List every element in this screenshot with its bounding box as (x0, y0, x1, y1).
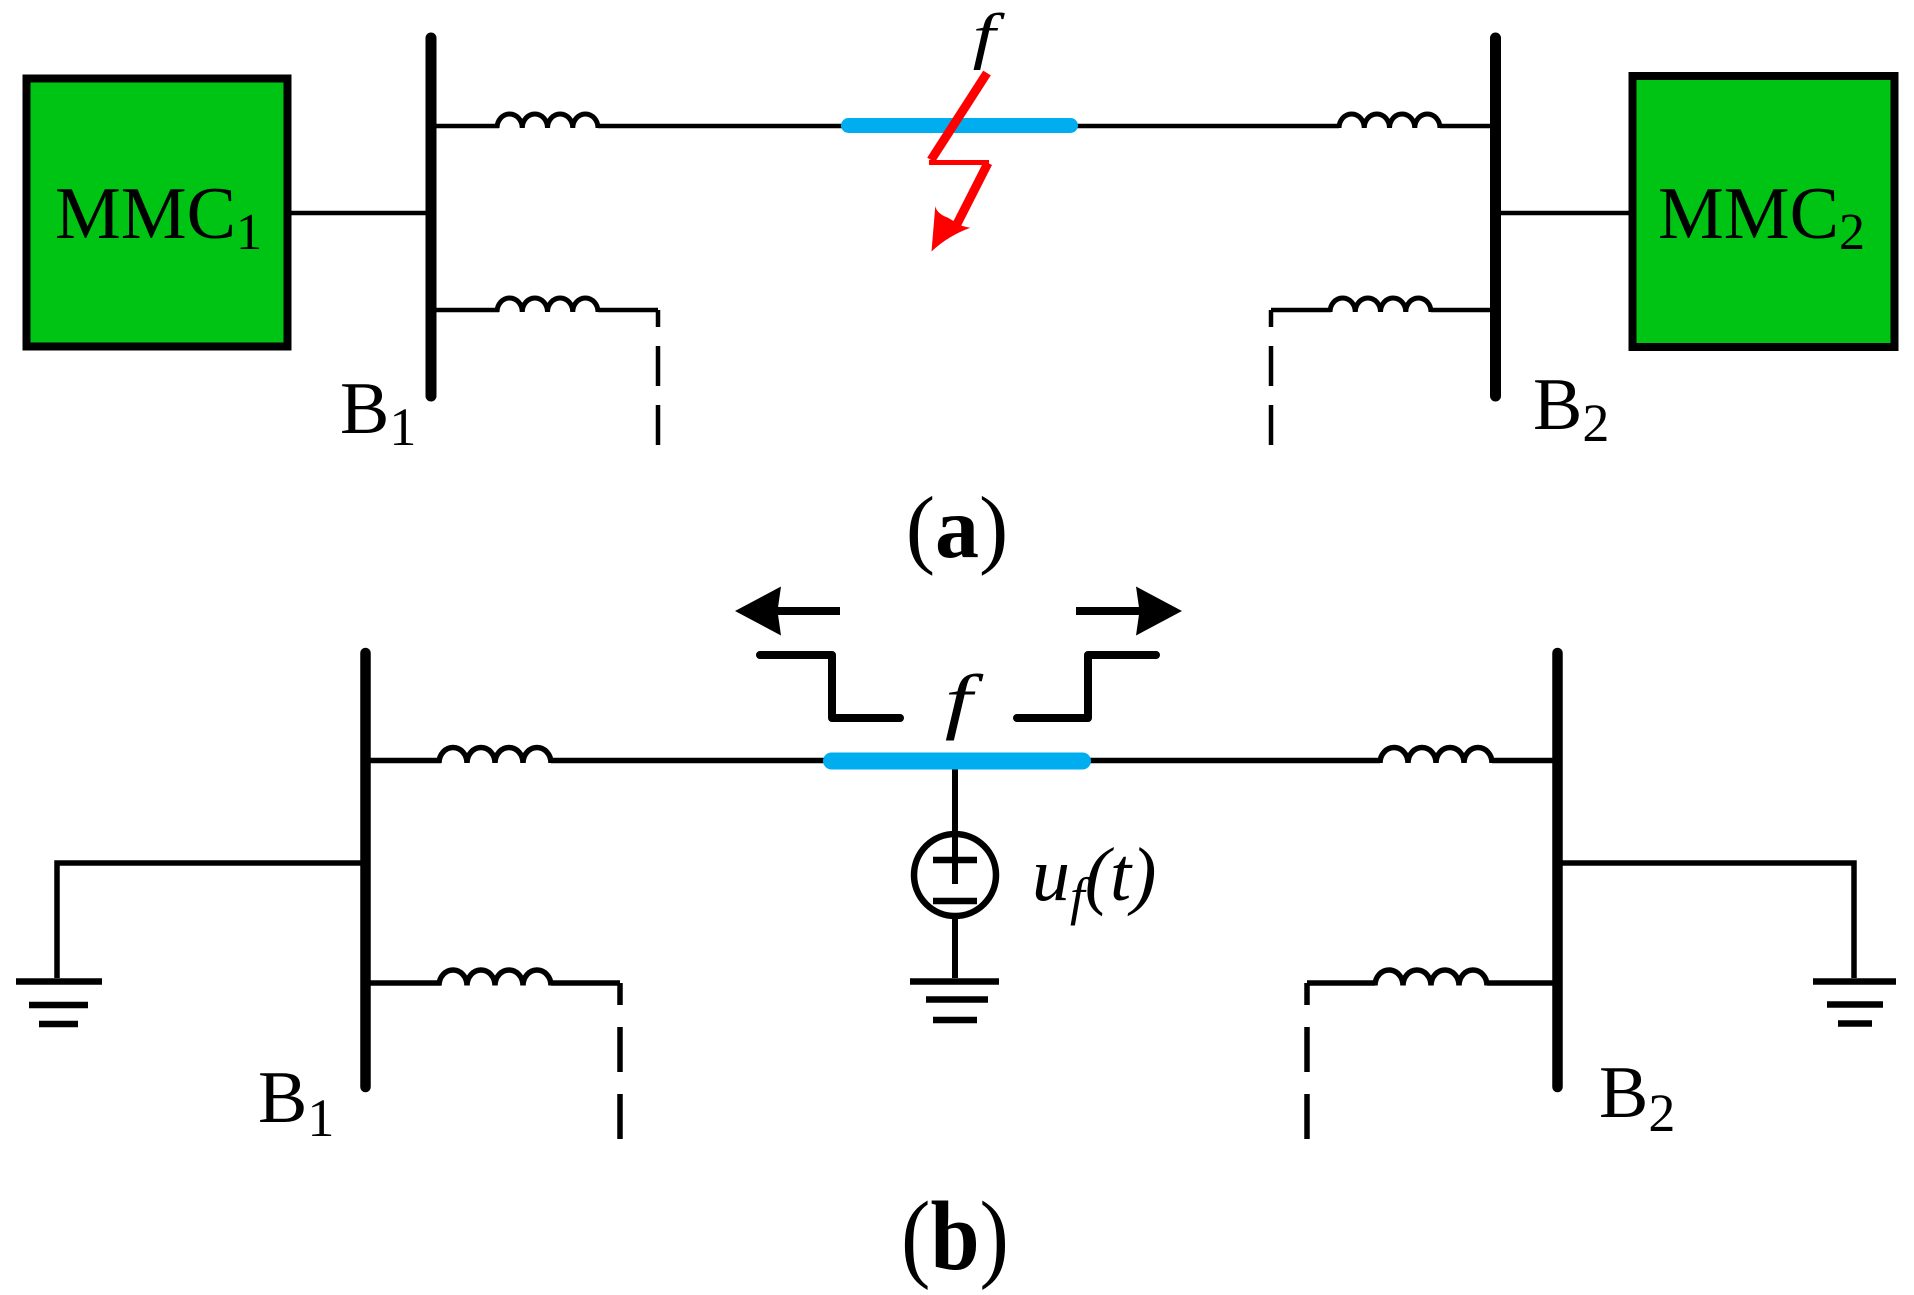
wire source to ground (952, 916, 958, 978)
converter MMC1 (27, 79, 288, 347)
svg-text:(b): (b) (901, 1183, 1009, 1291)
faulted line segment (blue, part b) (832, 753, 1083, 770)
wire inductor L4 to bus B2 (1431, 308, 1495, 313)
bus B2 (part b) (1552, 653, 1563, 1087)
wire bus B1 to lower inductor L7 (part b) (366, 980, 441, 986)
wire faulted segment to inductor L2 (960, 124, 1339, 129)
wire bus B1 to left ground (57, 863, 366, 978)
wire MMC1 to bus B1 (287, 211, 431, 216)
wire bus B2 to MMC2 (1495, 211, 1633, 216)
ground (fault source) (910, 982, 999, 1021)
voltage source uf(t) circle (914, 834, 996, 916)
wire inductor L3 to dashed stub (598, 308, 658, 313)
wire bus B2 to right ground (1557, 863, 1854, 978)
svg-text:MMC1: MMC1 (55, 173, 262, 261)
dashed stub (B2 side, part a) (1269, 310, 1274, 448)
inductor L4 (B2 spare feeder) (1330, 298, 1431, 312)
forward travelling wave arrow (1076, 587, 1182, 636)
wire inductor L6 to bus B2 (part b) (1492, 758, 1557, 764)
bus B1 (part b) (360, 653, 371, 1087)
svg-text:uf(t): uf(t) (1032, 833, 1156, 926)
wire inductor L1 to faulted segment (598, 124, 960, 129)
inductor L2 (B2 end of line) (1339, 114, 1440, 128)
forward wave step symbol (1017, 655, 1156, 718)
inductor L5 (part b, B1 end of line) (439, 747, 551, 763)
backward wave step symbol (760, 655, 900, 718)
dashed stub (part b, B1 side) (617, 983, 623, 1139)
plus sign of source (933, 857, 977, 864)
minus sign of source (933, 898, 977, 905)
svg-text:(a): (a) (906, 480, 1009, 577)
inductor L3 (B1 spare feeder) (497, 298, 598, 312)
wire faulted segment to inductor L6 (part b) (957, 758, 1380, 764)
svg-text:MMC2: MMC2 (1658, 173, 1865, 261)
wire bus B1 to lower inductor L3 (431, 308, 499, 313)
wire bus B1 to inductor L1 (431, 124, 499, 129)
ground (left) (16, 982, 102, 1025)
inductor L8 (part b, B2 spare feeder) (1375, 970, 1487, 986)
fault lightning arrow (929, 73, 989, 252)
backward travelling wave arrow (735, 587, 840, 636)
inductor L1 (B1 end of line) (497, 114, 598, 128)
inductor L6 (part b, B2 end of line) (1380, 747, 1492, 763)
inductor L7 (part b, B1 spare feeder) (439, 970, 551, 986)
bus B2 (1490, 38, 1501, 396)
ground (right) (1813, 982, 1896, 1024)
dashed stub (part b, B2 side) (1304, 983, 1310, 1139)
wire inductor L5 to faulted segment (part b) (551, 758, 957, 764)
wire inductor L7 to dashed stub (part b) (551, 980, 620, 986)
wire dashed stub to inductor L8 (part b) (1307, 980, 1375, 986)
wire dashed stub to inductor L4 (1271, 308, 1331, 313)
fault branch wire to voltage source (952, 762, 958, 884)
wire inductor L2 to bus B2 (1440, 124, 1495, 129)
wire bus B1 to inductor L5 (366, 758, 441, 764)
dashed stub (B1 side, part a) (656, 310, 661, 446)
bus B1 (426, 38, 437, 396)
wire inductor L8 to bus B2 (part b lower) (1487, 980, 1557, 986)
converter MMC2 (1633, 76, 1895, 347)
faulted line segment (blue) (849, 118, 1071, 133)
